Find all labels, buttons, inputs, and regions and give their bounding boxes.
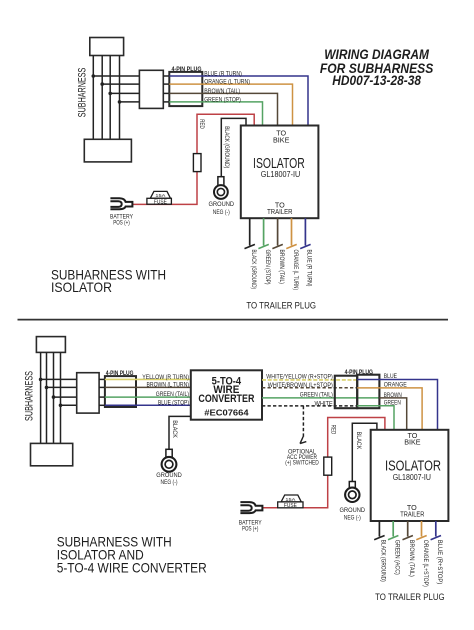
trailer wire black (ground) bbox=[249, 218, 251, 245]
fuse holder F2 (inline on red wire) bbox=[324, 457, 332, 475]
svg-text:ORANGE (L TURN): ORANGE (L TURN) bbox=[292, 250, 299, 291]
svg-text:ISOLATOR: ISOLATOR bbox=[51, 279, 112, 295]
wire black ground from isolator bbox=[352, 423, 377, 481]
title WIRING DIAGRAM FOR SUBHARNESS HD007-13-28-38 bbox=[320, 47, 433, 88]
trailer wire black (ground) bbox=[378, 521, 380, 537]
wire white/yellow (R+stop) dashed bbox=[262, 379, 357, 381]
ground ring terminal bbox=[162, 457, 177, 472]
svg-text:POS (+): POS (+) bbox=[113, 220, 130, 227]
svg-text:GREEN (ACC): GREEN (ACC) bbox=[394, 540, 401, 575]
svg-text:TRAILER: TRAILER bbox=[400, 509, 424, 518]
svg-text:BLACK: BLACK bbox=[171, 420, 178, 438]
trailer wire blue (R+stop) bbox=[435, 521, 437, 537]
svg-text:(+) SWITCHED: (+) SWITCHED bbox=[285, 461, 319, 467]
trailer wire orange (L+stop) bbox=[421, 521, 423, 537]
svg-text:BLUE (STOP): BLUE (STOP) bbox=[158, 399, 189, 406]
battery terminal (spade) top bbox=[110, 198, 132, 209]
4-pin plug P3 body (left half) bbox=[335, 376, 357, 409]
svg-text:BLUE: BLUE bbox=[384, 373, 398, 380]
node junction dots on bundle bbox=[39, 378, 63, 408]
trailer wire orange (L turn) bbox=[291, 218, 293, 245]
wire end tick bbox=[374, 536, 384, 540]
ground ring terminal bbox=[345, 488, 359, 502]
ground ring terminal stem bbox=[218, 177, 224, 187]
svg-text:5-TO-4 WIRE CONVERTER: 5-TO-4 WIRE CONVERTER bbox=[57, 560, 207, 576]
svg-text:RED: RED bbox=[329, 425, 336, 435]
svg-text:ORANGE (L+STOP): ORANGE (L+STOP) bbox=[422, 540, 429, 587]
svg-text:WHITE: WHITE bbox=[315, 400, 333, 407]
svg-text:BLACK (GROUND): BLACK (GROUND) bbox=[223, 126, 230, 168]
wire brown (L turn) to converter bbox=[105, 386, 191, 388]
wire end tick bbox=[272, 244, 282, 248]
connector J2 body bbox=[77, 373, 99, 413]
svg-text:ORANGE: ORANGE bbox=[384, 382, 408, 389]
ground ring terminal bbox=[214, 185, 228, 199]
svg-text:SUBHARNESS: SUBHARNESS bbox=[23, 371, 35, 421]
wire blue (R turn) to isolator bbox=[169, 76, 308, 126]
svg-text:SUBHARNESS: SUBHARNESS bbox=[76, 68, 88, 118]
isolator U1 body bbox=[241, 126, 319, 219]
subharness connector top block bbox=[36, 337, 65, 353]
fuse holder F1 (inline on red wire) bbox=[193, 154, 201, 172]
wire black ground from isolator bbox=[221, 118, 246, 176]
wire red battery feed to isolator bbox=[133, 114, 254, 204]
svg-text:GREEN (TAIL): GREEN (TAIL) bbox=[300, 392, 333, 399]
wire white/brown (L+stop) dashed bbox=[262, 387, 357, 389]
wire stubs J1 to plug bbox=[163, 76, 169, 102]
svg-text:BLACK: BLACK bbox=[355, 432, 362, 450]
svg-text:YELLOW (R TURN): YELLOW (R TURN) bbox=[142, 374, 189, 381]
wire yellow (R turn) to converter bbox=[105, 378, 191, 380]
subharness connector bottom block bbox=[31, 443, 73, 465]
wire end tick bbox=[258, 244, 268, 248]
svg-text:BIKE: BIKE bbox=[273, 135, 290, 144]
svg-text:GROUND: GROUND bbox=[340, 507, 366, 514]
svg-text:HD007-13-28-38: HD007-13-28-38 bbox=[332, 73, 421, 88]
svg-text:NEG (-): NEG (-) bbox=[161, 479, 178, 486]
svg-text:GREEN (STOP): GREEN (STOP) bbox=[264, 250, 271, 285]
svg-text:GREEN (STOP): GREEN (STOP) bbox=[204, 96, 241, 103]
svg-text:TO TRAILER PLUG: TO TRAILER PLUG bbox=[375, 592, 445, 603]
wire brown to isolator bbox=[379, 398, 406, 430]
wire green to isolator bbox=[357, 406, 394, 430]
arrowhead acc pointer bbox=[300, 437, 306, 444]
svg-text:BLUE (R+STOP): BLUE (R+STOP) bbox=[436, 540, 443, 585]
svg-text:TRAILER: TRAILER bbox=[267, 207, 292, 216]
wire black converter ground bbox=[169, 416, 191, 449]
svg-text:RED: RED bbox=[198, 119, 205, 129]
wire end tick bbox=[403, 536, 413, 540]
svg-text:ORANGE (L TURN): ORANGE (L TURN) bbox=[204, 79, 250, 86]
svg-text:BROWN (TAIL): BROWN (TAIL) bbox=[278, 250, 285, 285]
wire end tick bbox=[286, 244, 296, 248]
wire end tick bbox=[245, 244, 255, 248]
svg-text:GL18007-IU: GL18007-IU bbox=[261, 169, 301, 179]
trailer wire blue (R turn) bbox=[304, 218, 306, 245]
svg-text:#EC07664: #EC07664 bbox=[204, 408, 249, 418]
fuse 15A blade symbol bbox=[147, 191, 172, 205]
subharness connector bottom block bbox=[84, 139, 131, 162]
wire stubs J2 to plug bbox=[99, 379, 105, 405]
wire red battery feed to isolator bbox=[263, 418, 385, 508]
isolator U3 body bbox=[371, 430, 449, 521]
wire green (stop) to isolator bbox=[169, 102, 262, 126]
trailer wire green (acc) bbox=[392, 521, 394, 537]
subharness connector top block bbox=[90, 38, 124, 56]
wire blue to isolator bbox=[357, 380, 437, 430]
svg-text:15A: 15A bbox=[285, 497, 296, 503]
svg-text:TO TRAILER PLUG: TO TRAILER PLUG bbox=[246, 301, 316, 312]
wire green (tail) bbox=[262, 397, 379, 399]
subharness wire bundle (4 vertical wires) bbox=[93, 56, 119, 140]
wire white dashed bbox=[262, 405, 357, 407]
subharness wire bundle (4 vertical wires) bbox=[41, 352, 61, 443]
ground ring terminal stem bbox=[349, 482, 355, 491]
4-pin plug P1 body bbox=[169, 72, 202, 106]
trailer wire green (stop) bbox=[263, 218, 265, 245]
svg-text:FUSE: FUSE bbox=[154, 200, 168, 206]
svg-text:FUSE: FUSE bbox=[284, 503, 298, 509]
svg-text:WHITE/YELLOW (R+STOP): WHITE/YELLOW (R+STOP) bbox=[266, 374, 333, 381]
wire blue (stop) to converter bbox=[105, 404, 191, 406]
svg-text:BLUE (R TURN): BLUE (R TURN) bbox=[204, 70, 242, 77]
fuse 15A blade symbol bbox=[278, 495, 303, 509]
svg-text:BLACK (GROUND): BLACK (GROUND) bbox=[380, 540, 387, 582]
battery terminal (spade) bottom bbox=[240, 502, 262, 513]
node junction dots on bundle bbox=[92, 74, 122, 104]
4-pin plug P2 body bbox=[105, 376, 136, 407]
wire orange (L turn) to isolator bbox=[169, 84, 292, 125]
converter U2 body bbox=[191, 370, 262, 419]
wire orange to isolator bbox=[357, 388, 422, 430]
svg-text:GREEN (TAIL): GREEN (TAIL) bbox=[156, 391, 189, 398]
svg-text:CONVERTER: CONVERTER bbox=[198, 393, 254, 405]
svg-text:BROWN (TAIL): BROWN (TAIL) bbox=[204, 88, 240, 95]
svg-text:GROUND: GROUND bbox=[209, 201, 235, 208]
svg-text:BIKE: BIKE bbox=[404, 437, 421, 446]
trailer wire brown (tail) bbox=[277, 218, 279, 245]
svg-text:WHITE/BROWN (L+STOP): WHITE/BROWN (L+STOP) bbox=[268, 382, 333, 389]
wire end tick bbox=[431, 536, 441, 540]
label 5-TO-4 WIRE CONVERTER bbox=[198, 375, 254, 417]
svg-text:4-PIN PLUG: 4-PIN PLUG bbox=[106, 370, 134, 377]
wire green (tail) to converter bbox=[105, 396, 191, 398]
wire taps to connector J2 bbox=[41, 379, 77, 405]
svg-text:NEG (-): NEG (-) bbox=[213, 209, 230, 216]
svg-text:GREEN: GREEN bbox=[384, 400, 401, 407]
svg-text:BROWN (TAIL): BROWN (TAIL) bbox=[408, 540, 415, 577]
wire end tick bbox=[388, 536, 398, 540]
svg-text:4-PIN PLUG: 4-PIN PLUG bbox=[345, 369, 373, 376]
svg-text:NEG (-): NEG (-) bbox=[344, 515, 361, 522]
svg-text:15A: 15A bbox=[155, 193, 166, 199]
4-pin plug P3 body (right half) bbox=[357, 375, 379, 409]
wire brown (tail) to isolator bbox=[169, 93, 277, 125]
wire end tick bbox=[300, 244, 310, 248]
trailer wire brown (tail) bbox=[407, 521, 409, 537]
wire end tick bbox=[416, 536, 426, 540]
wire taps to connector J1 bbox=[93, 76, 139, 102]
svg-text:BROWN: BROWN bbox=[384, 392, 402, 399]
svg-text:BLUE (R TURN): BLUE (R TURN) bbox=[306, 250, 313, 287]
svg-text:POS (+): POS (+) bbox=[242, 525, 259, 532]
svg-text:WIRING DIAGRAM: WIRING DIAGRAM bbox=[324, 47, 429, 62]
ground ring terminal stem bbox=[166, 449, 172, 458]
svg-text:4-PIN PLUG: 4-PIN PLUG bbox=[172, 66, 202, 73]
svg-text:BROWN (L TURN): BROWN (L TURN) bbox=[147, 382, 190, 389]
section divider line bbox=[18, 319, 449, 321]
svg-text:BLACK (GROUND): BLACK (GROUND) bbox=[250, 250, 257, 290]
svg-text:GROUND: GROUND bbox=[156, 472, 182, 479]
wire white branch to acc (dashed) bbox=[302, 406, 304, 437]
svg-text:GL18007-IU: GL18007-IU bbox=[393, 472, 431, 482]
connector J1 body bbox=[139, 70, 163, 108]
